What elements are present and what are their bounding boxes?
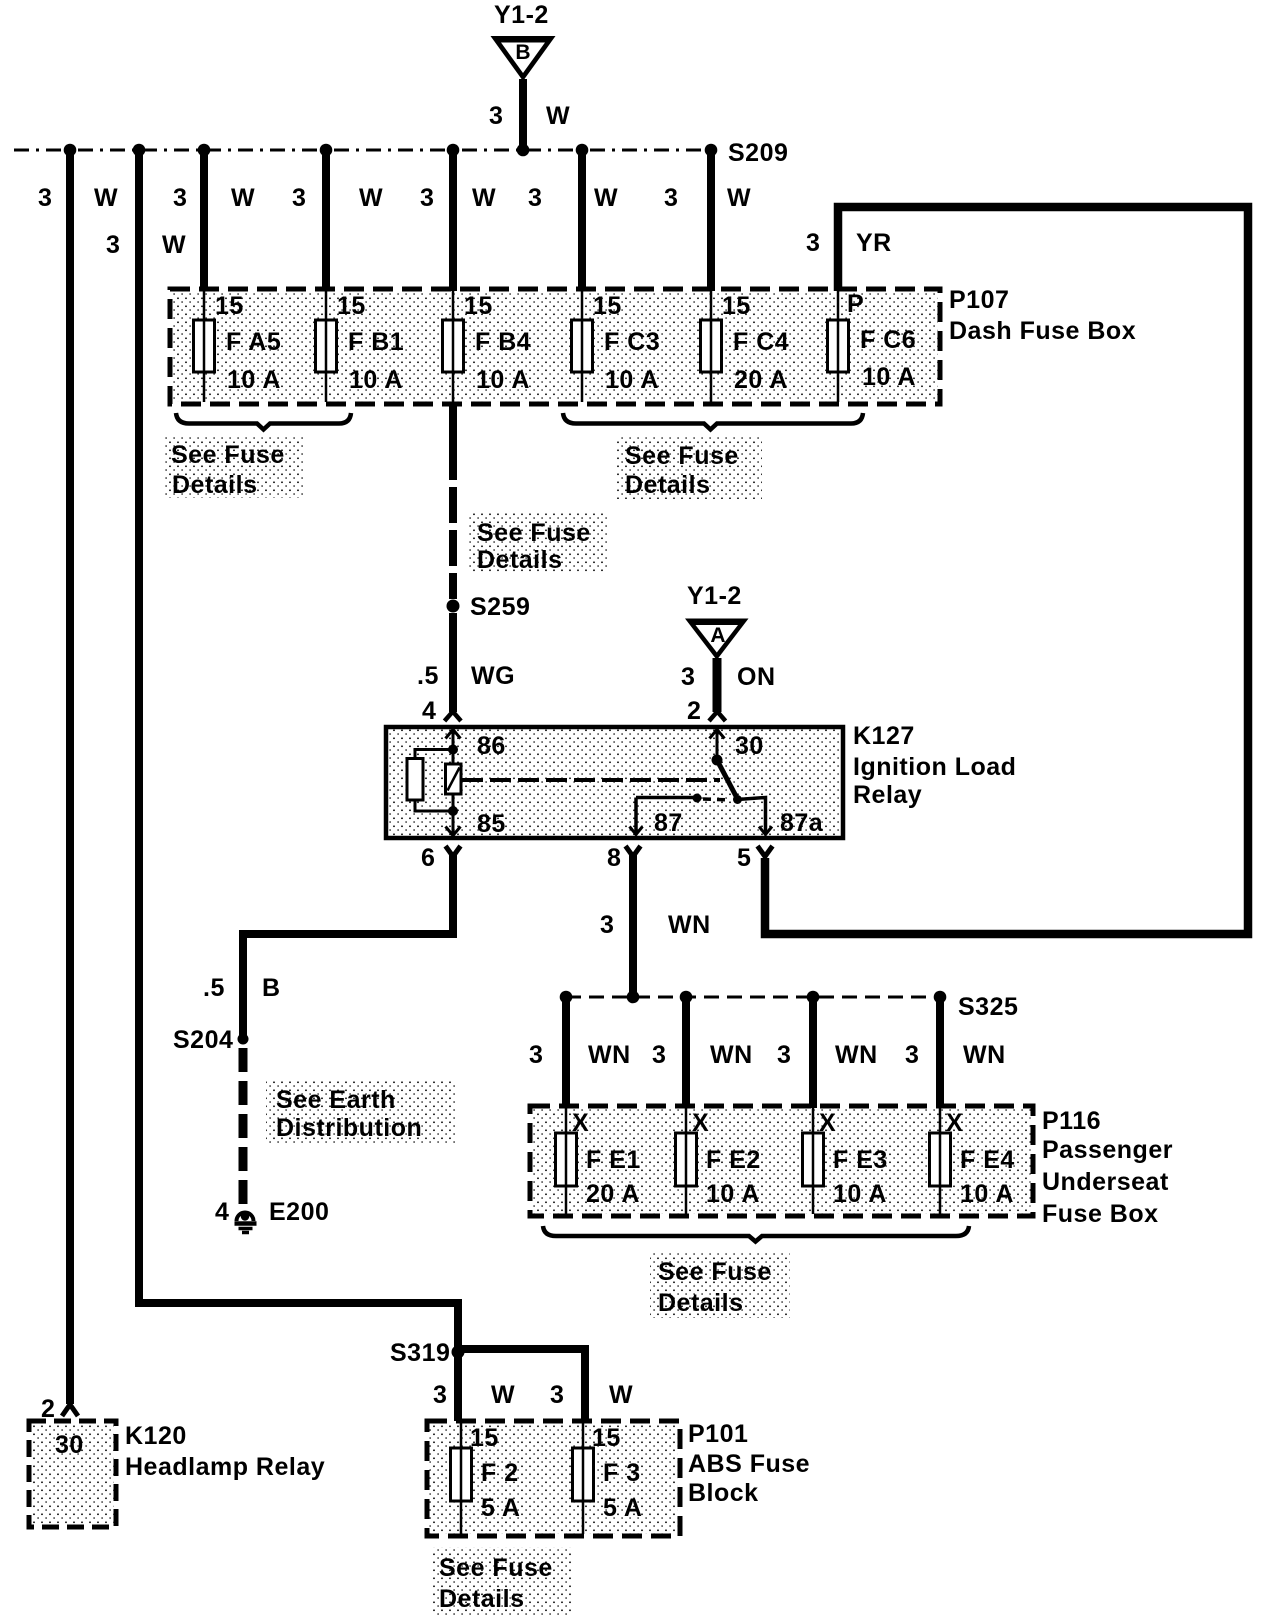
fuse F B4 10 A pin 15 bbox=[443, 291, 532, 402]
bracket under P116 fuses bbox=[543, 1226, 969, 1242]
wire labels 3 W 3 W (P101) bbox=[433, 1381, 633, 1409]
svg-text:3: 3 bbox=[600, 911, 614, 939]
svg-text:WN: WN bbox=[588, 1041, 631, 1069]
svg-text:10 A: 10 A bbox=[227, 366, 281, 394]
wire S319 to fuse F2 bbox=[454, 1352, 462, 1421]
svg-text:10 A: 10 A bbox=[706, 1180, 760, 1208]
label K120 Headlamp Relay bbox=[125, 1422, 325, 1481]
svg-text:ON: ON bbox=[737, 663, 776, 691]
svg-text:6: 6 bbox=[421, 844, 435, 872]
svg-text:10 A: 10 A bbox=[605, 366, 659, 394]
svg-text:15: 15 bbox=[592, 1424, 621, 1452]
node on S325 at x=633 bbox=[627, 991, 640, 1004]
node on S209 at x=582 bbox=[576, 144, 589, 157]
svg-text:W: W bbox=[472, 184, 496, 212]
svg-text:15: 15 bbox=[593, 292, 622, 320]
earth ground E200 bbox=[235, 1212, 257, 1232]
node on S209 at x=326 bbox=[320, 144, 333, 157]
svg-text:F B1: F B1 bbox=[348, 328, 404, 356]
svg-text:WN: WN bbox=[963, 1041, 1006, 1069]
switch arm 30 to 87a bbox=[717, 760, 742, 804]
node terminal 85 bbox=[448, 806, 458, 816]
wire 3 WN to fuse at x=566 bbox=[529, 993, 631, 1108]
svg-text:W: W bbox=[94, 184, 118, 212]
note highlight patch (See Earth Distribution) bbox=[266, 1081, 456, 1143]
svg-text:F E3: F E3 bbox=[833, 1146, 888, 1174]
svg-text:Y1-2: Y1-2 bbox=[687, 582, 742, 610]
node on S325 at x=686 bbox=[680, 991, 693, 1004]
svg-text:S204: S204 bbox=[173, 1026, 233, 1054]
fuse block P101 ABS Fuse Block (dashed outline) bbox=[427, 1421, 680, 1536]
svg-text:F 3: F 3 bbox=[603, 1459, 641, 1487]
svg-text:10 A: 10 A bbox=[833, 1180, 887, 1208]
wire W to fuse F B1 bbox=[322, 146, 330, 291]
svg-text:See Fuse: See Fuse bbox=[625, 442, 739, 470]
node on S209 at x=523 bbox=[517, 144, 530, 157]
relay pin 5 connector bbox=[737, 844, 773, 872]
wire W to fuse F B4 bbox=[449, 146, 457, 291]
node terminal 30 bbox=[712, 755, 723, 766]
wire 3 WN to fuse at x=813 bbox=[777, 993, 878, 1108]
svg-text:W: W bbox=[609, 1381, 633, 1409]
node on S209 at x=711 bbox=[705, 144, 718, 157]
label K127 Ignition Load Relay bbox=[853, 722, 1016, 809]
fuse box P116 Passenger Underseat Fuse Box (dashed outline) bbox=[530, 1106, 1033, 1216]
resistor (parallel with coil) bbox=[407, 750, 453, 812]
svg-text:A: A bbox=[710, 624, 725, 647]
svg-text:F E2: F E2 bbox=[706, 1146, 761, 1174]
svg-text:3: 3 bbox=[550, 1381, 564, 1409]
relay pin 4 internal arrow (terminal 86 feed) bbox=[446, 729, 461, 749]
svg-text:P107: P107 bbox=[949, 286, 1009, 314]
svg-text:Fuse Box: Fuse Box bbox=[1042, 1200, 1159, 1228]
wire labels 3 W (second wire, offset row) bbox=[106, 231, 186, 259]
node on S325 at x=813 bbox=[807, 991, 820, 1004]
svg-text:15: 15 bbox=[215, 292, 244, 320]
fuse F C4 20 A pin 15 bbox=[701, 291, 790, 402]
svg-text:W: W bbox=[231, 184, 255, 212]
node on S209 at x=139 bbox=[133, 144, 146, 157]
relay pin 8 connector bbox=[607, 844, 641, 872]
fuse F E4 10 A pin X bbox=[930, 1108, 1015, 1214]
svg-text:F B4: F B4 bbox=[475, 328, 531, 356]
svg-text:3: 3 bbox=[681, 663, 695, 691]
svg-text:Details: Details bbox=[477, 546, 562, 574]
svg-text:F E4: F E4 bbox=[960, 1146, 1015, 1174]
svg-text:K127: K127 bbox=[853, 722, 915, 750]
svg-text:15: 15 bbox=[337, 292, 366, 320]
fuse F E1 20 A pin X bbox=[556, 1108, 641, 1214]
wire W to fuse F C4 bbox=[707, 146, 715, 291]
svg-text:S209: S209 bbox=[728, 139, 788, 167]
svg-text:X: X bbox=[946, 1109, 963, 1137]
wire .5 WG to relay pin 4 bbox=[417, 613, 515, 712]
svg-text:W: W bbox=[359, 184, 383, 212]
svg-text:Headlamp Relay: Headlamp Relay bbox=[125, 1453, 325, 1481]
wire WG from fuse B4 (solid then dashed) bbox=[449, 402, 457, 599]
wire YR: fuse C6 to relay pin 5 (right side loop) bbox=[765, 207, 1248, 934]
svg-text:85: 85 bbox=[477, 810, 506, 838]
svg-text:P: P bbox=[847, 290, 864, 318]
svg-text:20 A: 20 A bbox=[586, 1180, 640, 1208]
relay K127 Ignition Load Relay (box) bbox=[386, 727, 843, 838]
fuse F E2 10 A pin X bbox=[676, 1108, 761, 1214]
svg-text:3: 3 bbox=[529, 1041, 543, 1069]
fuse box P107 Dash Fuse Box (dashed outline) bbox=[170, 289, 940, 404]
svg-text:F C3: F C3 bbox=[604, 328, 660, 356]
svg-text:4: 4 bbox=[422, 697, 436, 725]
svg-text:Y1-2: Y1-2 bbox=[494, 1, 549, 29]
note highlight patch (See Fuse Details P116) bbox=[650, 1252, 790, 1318]
svg-text:8: 8 bbox=[607, 844, 621, 872]
relay coil bbox=[446, 749, 462, 811]
label P116 Passenger Underseat Fuse Box bbox=[1042, 1107, 1173, 1228]
svg-text:15: 15 bbox=[722, 292, 751, 320]
svg-text:Block: Block bbox=[688, 1479, 759, 1507]
svg-text:20 A: 20 A bbox=[734, 366, 788, 394]
svg-text:5 A: 5 A bbox=[603, 1494, 642, 1522]
connector Y1-2 (A) bbox=[685, 582, 749, 660]
wire 3 WN to fuse at x=686 bbox=[652, 993, 753, 1108]
svg-text:F 2: F 2 bbox=[481, 1459, 519, 1487]
node terminal 86 bbox=[448, 745, 458, 755]
svg-text:B: B bbox=[515, 41, 530, 64]
wire W to S319 (second) bbox=[139, 146, 458, 1352]
wire pin 6 to S204 bbox=[243, 853, 453, 1037]
connector Y1-2 (B) bbox=[491, 1, 556, 81]
node on S209 at x=70 bbox=[64, 144, 77, 157]
svg-text:W: W bbox=[162, 231, 186, 259]
svg-text:Underseat: Underseat bbox=[1042, 1168, 1169, 1196]
wire W to fuse F C3 bbox=[578, 146, 586, 291]
svg-text:X: X bbox=[819, 1109, 836, 1137]
svg-text:F C6: F C6 bbox=[860, 326, 916, 354]
svg-text:Relay: Relay bbox=[853, 781, 922, 809]
svg-text:Ignition Load: Ignition Load bbox=[853, 753, 1016, 781]
svg-text:86: 86 bbox=[477, 732, 506, 760]
svg-text:P101: P101 bbox=[688, 1420, 748, 1448]
svg-text:B: B bbox=[262, 974, 281, 1002]
mechanical link (dashed) coil to switch bbox=[462, 778, 720, 782]
svg-text:15: 15 bbox=[470, 1424, 499, 1452]
svg-text:3: 3 bbox=[173, 184, 187, 212]
svg-text:YR: YR bbox=[856, 229, 892, 257]
wire S319 to fuse F3 bbox=[462, 1349, 585, 1421]
fuse F 2 5 A pin 15 bbox=[451, 1421, 521, 1534]
svg-text:4: 4 bbox=[215, 1198, 229, 1226]
fuse F C3 10 A pin 15 bbox=[572, 291, 661, 402]
svg-text:.5: .5 bbox=[203, 974, 225, 1002]
wire S204 to E200 (dashed) bbox=[239, 1048, 248, 1206]
wire labels 3 YR bbox=[806, 229, 892, 257]
svg-text:W: W bbox=[727, 184, 751, 212]
node on S325 at x=940 bbox=[934, 991, 947, 1004]
bracket under fuses C3-C4 bbox=[563, 413, 863, 430]
svg-text:3: 3 bbox=[489, 102, 503, 130]
svg-text:S259: S259 bbox=[470, 593, 530, 621]
svg-text:3: 3 bbox=[38, 184, 52, 212]
contact 87 (with dashed gap) bbox=[636, 794, 731, 803]
wire Y1-2 B to S209, 3 W bbox=[489, 79, 570, 151]
svg-text:X: X bbox=[572, 1109, 589, 1137]
svg-text:W: W bbox=[546, 102, 570, 130]
note See Fuse Details (P116) bbox=[658, 1258, 772, 1317]
splice bus S325 (dashed) bbox=[566, 996, 940, 999]
label P107 Dash Fuse Box bbox=[949, 286, 1136, 345]
svg-text:WN: WN bbox=[710, 1041, 753, 1069]
wire labels .5 B bbox=[203, 974, 281, 1002]
node on S325 at x=566 bbox=[560, 991, 573, 1004]
svg-text:See Fuse: See Fuse bbox=[658, 1258, 772, 1286]
svg-text:W: W bbox=[594, 184, 618, 212]
svg-text:3: 3 bbox=[528, 184, 542, 212]
svg-text:ABS Fuse: ABS Fuse bbox=[688, 1450, 810, 1478]
svg-text:3: 3 bbox=[420, 184, 434, 212]
svg-text:3: 3 bbox=[806, 229, 820, 257]
svg-text:See Fuse: See Fuse bbox=[477, 519, 591, 547]
svg-text:F C4: F C4 bbox=[733, 328, 789, 356]
wire W to fuse F A5 bbox=[200, 146, 208, 291]
label P101 ABS Fuse Block bbox=[688, 1420, 810, 1507]
terminal 87a lead with arrow bbox=[738, 798, 773, 835]
svg-text:3: 3 bbox=[433, 1381, 447, 1409]
svg-text:Dash Fuse Box: Dash Fuse Box bbox=[949, 317, 1136, 345]
svg-text:E200: E200 bbox=[269, 1198, 329, 1226]
note See Fuse Details (right) bbox=[625, 442, 739, 499]
note highlight patch (See Fuse Details P101) bbox=[431, 1547, 571, 1615]
note highlight patch (See Fuse Details right) bbox=[617, 437, 762, 499]
svg-text:Details: Details bbox=[439, 1585, 524, 1613]
svg-text:.5: .5 bbox=[417, 662, 439, 690]
svg-text:F A5: F A5 bbox=[226, 328, 281, 356]
relay pin 2 connector bbox=[687, 697, 726, 725]
note highlight patch (See Fuse Details B4) bbox=[468, 513, 608, 573]
relay pin 4 connector bbox=[422, 697, 461, 725]
svg-text:Passenger: Passenger bbox=[1042, 1136, 1173, 1164]
svg-text:30: 30 bbox=[735, 732, 764, 760]
relay pin 6 internal arrow (terminal 85 out) bbox=[446, 811, 461, 836]
fuse F B1 10 A pin 15 bbox=[316, 291, 405, 402]
svg-text:5 A: 5 A bbox=[481, 1494, 520, 1522]
relay K120 Headlamp Relay (dashed box) bbox=[29, 1421, 116, 1527]
wire labels 3 W (row 1) bbox=[38, 184, 751, 212]
svg-text:10 A: 10 A bbox=[476, 366, 530, 394]
svg-text:10 A: 10 A bbox=[960, 1180, 1014, 1208]
svg-text:15: 15 bbox=[464, 292, 493, 320]
fuse F A5 10 A pin 15 bbox=[194, 291, 282, 402]
svg-text:S325: S325 bbox=[958, 993, 1018, 1021]
svg-text:K120: K120 bbox=[125, 1422, 187, 1450]
svg-text:S319: S319 bbox=[390, 1339, 450, 1367]
svg-text:3: 3 bbox=[652, 1041, 666, 1069]
svg-text:X: X bbox=[692, 1109, 709, 1137]
splice node S319 bbox=[452, 1346, 465, 1359]
svg-text:Details: Details bbox=[172, 471, 257, 499]
wire 3 ON to relay pin 2 bbox=[681, 658, 776, 712]
terminal 87 lead with arrow bbox=[630, 798, 643, 835]
bracket under fuses A5-B1 bbox=[176, 413, 351, 430]
svg-text:WN: WN bbox=[835, 1041, 878, 1069]
svg-text:3: 3 bbox=[664, 184, 678, 212]
splice node S259 bbox=[447, 600, 460, 613]
svg-text:3: 3 bbox=[777, 1041, 791, 1069]
label 4 E200 bbox=[215, 1198, 329, 1226]
fuse F E3 10 A pin X bbox=[803, 1108, 888, 1214]
wire W to K120 (leftmost) bbox=[66, 146, 74, 1404]
relay pin 2 internal arrow (terminal 30 feed) bbox=[710, 729, 725, 760]
relay pin 6 connector bbox=[421, 844, 461, 872]
svg-text:30: 30 bbox=[55, 1431, 84, 1459]
fuse F 3 5 A pin 15 bbox=[573, 1421, 643, 1534]
svg-text:10 A: 10 A bbox=[862, 363, 916, 391]
svg-text:See Earth: See Earth bbox=[276, 1086, 396, 1114]
svg-text:3: 3 bbox=[905, 1041, 919, 1069]
note See Earth Distribution bbox=[276, 1086, 422, 1142]
note highlight patch (See Fuse Details left) bbox=[163, 436, 303, 498]
svg-text:W: W bbox=[491, 1381, 515, 1409]
fuse F C6 10 A pin P bbox=[828, 290, 917, 402]
svg-text:3: 3 bbox=[292, 184, 306, 212]
svg-text:P116: P116 bbox=[1042, 1107, 1101, 1135]
svg-text:See Fuse: See Fuse bbox=[439, 1554, 553, 1582]
node on S209 at x=204 bbox=[198, 144, 211, 157]
svg-text:2: 2 bbox=[687, 697, 701, 725]
node on S209 at x=453 bbox=[447, 144, 460, 157]
svg-text:WN: WN bbox=[668, 911, 711, 939]
svg-text:F E1: F E1 bbox=[586, 1146, 641, 1174]
splice bus S209 (dashed) bbox=[14, 149, 711, 152]
svg-text:5: 5 bbox=[737, 844, 751, 872]
svg-text:3: 3 bbox=[106, 231, 120, 259]
note See Fuse Details (P101) bbox=[439, 1554, 553, 1613]
svg-text:See Fuse: See Fuse bbox=[171, 441, 285, 469]
svg-text:10 A: 10 A bbox=[349, 366, 403, 394]
note See Fuse Details (B4 wire) bbox=[477, 519, 591, 574]
wire 3 WN pin 8 to S325 bbox=[600, 853, 711, 997]
K120 pin connector bbox=[62, 1405, 78, 1417]
note See Fuse Details (left) bbox=[171, 441, 285, 499]
wire 3 WN to fuse at x=940 bbox=[905, 993, 1006, 1108]
svg-text:87a: 87a bbox=[780, 809, 824, 837]
splice node S204 bbox=[238, 1034, 249, 1045]
svg-text:Details: Details bbox=[625, 471, 710, 499]
svg-text:Distribution: Distribution bbox=[276, 1114, 422, 1142]
svg-text:WG: WG bbox=[471, 662, 515, 690]
svg-text:87: 87 bbox=[654, 809, 683, 837]
svg-text:Details: Details bbox=[658, 1289, 743, 1317]
